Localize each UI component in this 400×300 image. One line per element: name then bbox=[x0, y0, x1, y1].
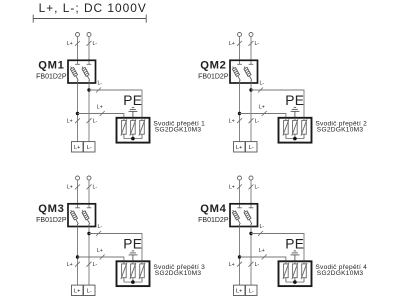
wire L- from QM4 down to terminal block bbox=[250, 227, 252, 285]
svg-text:L+: L+ bbox=[67, 262, 73, 268]
svg-text:L+: L+ bbox=[229, 262, 235, 268]
terminal block L+ output of QM3 bbox=[72, 285, 84, 295]
varistor L+ of unit 1 (surge arrester element) bbox=[121, 118, 127, 139]
wire marker slash on L+ input of QM3 bbox=[75, 184, 80, 189]
wire marker slash on L+ output of QM3 bbox=[75, 262, 80, 267]
junction node on common bus of surge arrester 1 bbox=[131, 137, 135, 141]
svg-text:L+: L+ bbox=[74, 289, 80, 295]
svg-text:L+: L+ bbox=[229, 41, 235, 47]
varistor L- of unit 1 (surge arrester element) bbox=[139, 118, 145, 139]
fuse-switch QM2 pole L-: blade with fuse body bbox=[244, 67, 252, 84]
junction node on L+ wire (branch to surge arrester 4) bbox=[238, 255, 241, 258]
earth (PE) symbol of block QM1 bbox=[129, 107, 138, 117]
fuse-switch QM4 pole L+: blade with fuse body bbox=[232, 210, 240, 227]
junction node on L+ wire (branch to surge arrester 3) bbox=[76, 255, 79, 258]
wire marker slash on L+ input of QM2 bbox=[237, 41, 242, 46]
svg-text:SG2DGK10M3: SG2DGK10M3 bbox=[317, 270, 364, 277]
svg-text:L-: L- bbox=[93, 185, 98, 191]
wire L+ from QM3 down to terminal block bbox=[77, 227, 79, 285]
svg-text:SG2DGK10M3: SG2DGK10M3 bbox=[155, 270, 202, 277]
terminal block L+ output of QM2 bbox=[234, 142, 246, 152]
fuse-switch QM4 pole L-: blade with fuse body bbox=[244, 210, 252, 227]
surge arrester unit 2 outline box bbox=[279, 118, 312, 143]
wire L- branch to surge arrester 3 bbox=[89, 234, 142, 262]
svg-text:L+: L+ bbox=[67, 185, 73, 191]
wire marker slash on L- branch of QM4 bbox=[258, 231, 263, 236]
fuse-switch QM3 pole L+: blade with fuse body bbox=[70, 210, 78, 227]
varistor PE of unit 2 (surge arrester element) bbox=[292, 118, 298, 139]
svg-text:L+: L+ bbox=[259, 248, 265, 254]
svg-text:QM4: QM4 bbox=[200, 203, 226, 215]
svg-text:L-: L- bbox=[93, 262, 98, 268]
surge arrester unit 4 outline box bbox=[279, 261, 312, 286]
wire marker slash on L- branch of QM2 bbox=[258, 88, 263, 93]
terminal block L- output of QM4 bbox=[246, 285, 258, 295]
svg-text:L+: L+ bbox=[229, 119, 235, 125]
svg-text:L-: L- bbox=[260, 224, 265, 230]
svg-text:L-: L- bbox=[255, 119, 260, 125]
common bus inside surge arrester 4 bbox=[286, 281, 304, 283]
svg-text:L+: L+ bbox=[97, 104, 103, 110]
svg-text:L+: L+ bbox=[74, 145, 80, 151]
surge arrester unit 1 outline box bbox=[117, 118, 150, 143]
earth (PE) symbol of block QM4 bbox=[291, 251, 300, 261]
wire L+ from QM4 down to terminal block bbox=[239, 227, 241, 285]
varistor PE of unit 3 (surge arrester element) bbox=[130, 261, 136, 282]
svg-text:L+: L+ bbox=[67, 119, 73, 125]
fuse-switch QM3 pole L-: fixed contact tick bbox=[87, 207, 92, 209]
svg-text:L-: L- bbox=[249, 145, 254, 151]
junction node on common bus of surge arrester 3 bbox=[131, 280, 135, 284]
terminal block L+ output of QM1 bbox=[72, 142, 84, 152]
wire marker slash on L+ branch of QM4 bbox=[262, 255, 267, 260]
junction node on common bus of surge arrester 2 bbox=[293, 137, 297, 141]
surge arrester unit 3 outline box bbox=[117, 261, 150, 286]
svg-text:L+: L+ bbox=[236, 289, 242, 295]
junction node on L- wire (branch to surge arrester 4) bbox=[249, 232, 252, 235]
junction node on common bus of surge arrester 4 bbox=[293, 280, 297, 284]
varistor L- of unit 4 (surge arrester element) bbox=[301, 261, 307, 282]
wire marker slash on L- output of QM1 bbox=[87, 118, 92, 123]
common bus inside surge arrester 2 bbox=[286, 138, 304, 140]
wire marker slash on L+ branch of QM1 bbox=[100, 111, 105, 116]
fuse-switch QM3 pole L-: blade with fuse body bbox=[82, 210, 90, 227]
terminal block L+ output of QM4 bbox=[234, 285, 246, 295]
wire marker slash on L- output of QM2 bbox=[249, 118, 254, 123]
wire marker slash on L- input of QM1 bbox=[87, 41, 92, 46]
svg-text:L+: L+ bbox=[97, 248, 103, 254]
svg-text:FB01D2P: FB01D2P bbox=[198, 73, 229, 80]
terminal L- input (circle) of QM2 bbox=[249, 33, 253, 37]
wire L- branch to surge arrester 4 bbox=[251, 234, 304, 262]
varistor L- of unit 3 (surge arrester element) bbox=[139, 261, 145, 282]
terminal L+ input (circle) of QM1 bbox=[76, 33, 80, 37]
wire L- from input terminal into QM1 bbox=[88, 37, 90, 65]
fuse disconnector QM2 outline box bbox=[230, 60, 258, 83]
wire L+ from input terminal into QM2 bbox=[239, 37, 241, 65]
wire L+ from input terminal into QM3 bbox=[77, 180, 79, 208]
fuse-switch QM2 pole L+: fixed contact tick bbox=[237, 63, 242, 65]
fuse disconnector QM1 outline box bbox=[68, 60, 96, 83]
fuse-switch QM4 pole L+: fixed contact tick bbox=[237, 207, 242, 209]
svg-text:L+: L+ bbox=[229, 185, 235, 191]
varistor L+ of unit 2 (surge arrester element) bbox=[283, 118, 289, 139]
wire L+ branch to surge arrester 4 bbox=[240, 257, 286, 261]
svg-text:QM3: QM3 bbox=[38, 203, 64, 215]
fuse-switch QM1 pole L+: fixed contact tick bbox=[75, 63, 80, 65]
fuse disconnector QM3 outline box bbox=[68, 204, 96, 227]
wire L+ from QM1 down to terminal block bbox=[77, 84, 79, 142]
svg-text:L+, L-; DC 1000V: L+, L-; DC 1000V bbox=[39, 1, 147, 15]
varistor L+ of unit 3 (surge arrester element) bbox=[121, 261, 127, 282]
wire marker slash on L+ output of QM2 bbox=[237, 118, 242, 123]
fuse-switch QM3 pole L+: fixed contact tick bbox=[75, 207, 80, 209]
junction node on L- wire (branch to surge arrester 3) bbox=[87, 232, 90, 235]
bus bracket line under title bbox=[33, 15, 146, 23]
junction node on L+ wire (branch to surge arrester 1) bbox=[76, 112, 79, 115]
svg-text:L-: L- bbox=[249, 289, 254, 295]
svg-text:L-: L- bbox=[255, 185, 260, 191]
svg-text:L+: L+ bbox=[236, 145, 242, 151]
svg-text:L-: L- bbox=[87, 145, 92, 151]
svg-text:L-: L- bbox=[93, 119, 98, 125]
svg-text:FB01D2P: FB01D2P bbox=[198, 217, 229, 224]
varistor L+ of unit 4 (surge arrester element) bbox=[283, 261, 289, 282]
svg-text:PE: PE bbox=[123, 237, 142, 252]
common bus inside surge arrester 1 bbox=[124, 138, 142, 140]
varistor PE of unit 4 (surge arrester element) bbox=[292, 261, 298, 282]
terminal L- input (circle) of QM3 bbox=[87, 176, 91, 180]
svg-text:PE: PE bbox=[123, 93, 142, 108]
svg-text:L-: L- bbox=[98, 81, 103, 87]
wire marker slash on L+ branch of QM2 bbox=[262, 111, 267, 116]
wire marker slash on L- branch of QM1 bbox=[96, 88, 101, 93]
common bus inside surge arrester 3 bbox=[124, 281, 142, 283]
wire marker slash on L+ output of QM4 bbox=[237, 262, 242, 267]
wire L+ from input terminal into QM1 bbox=[77, 37, 79, 65]
svg-text:PE: PE bbox=[285, 93, 304, 108]
svg-text:L-: L- bbox=[87, 289, 92, 295]
wire L+ branch to surge arrester 2 bbox=[240, 114, 286, 118]
wire L- from QM3 down to terminal block bbox=[88, 227, 90, 285]
fuse-switch QM1 pole L+: blade with fuse body bbox=[70, 67, 78, 84]
terminal L+ input (circle) of QM2 bbox=[238, 33, 242, 37]
fuse-switch QM1 pole L-: blade with fuse body bbox=[82, 67, 90, 84]
wire marker slash on L+ input of QM4 bbox=[237, 184, 242, 189]
wire L+ from input terminal into QM4 bbox=[239, 180, 241, 208]
wire L+ from QM2 down to terminal block bbox=[239, 84, 241, 142]
wire L- branch to surge arrester 1 bbox=[89, 90, 142, 118]
wire L- from QM2 down to terminal block bbox=[250, 84, 252, 142]
fuse-switch QM2 pole L-: fixed contact tick bbox=[249, 63, 254, 65]
fuse-switch QM4 pole L-: fixed contact tick bbox=[249, 207, 254, 209]
wire marker slash on L- output of QM4 bbox=[249, 262, 254, 267]
svg-text:SG2DGK10M3: SG2DGK10M3 bbox=[155, 127, 202, 134]
svg-text:FB01D2P: FB01D2P bbox=[36, 73, 67, 80]
terminal L- input (circle) of QM1 bbox=[87, 33, 91, 37]
svg-text:QM1: QM1 bbox=[38, 59, 64, 71]
fuse-switch QM1 pole L-: fixed contact tick bbox=[87, 63, 92, 65]
wire marker slash on L+ input of QM1 bbox=[75, 41, 80, 46]
wire marker slash on L+ branch of QM3 bbox=[100, 255, 105, 260]
junction node on L+ wire (branch to surge arrester 2) bbox=[238, 112, 241, 115]
wire L+ branch to surge arrester 1 bbox=[78, 114, 124, 118]
earth (PE) symbol of block QM2 bbox=[291, 107, 300, 117]
svg-text:L-: L- bbox=[93, 41, 98, 47]
fuse disconnector QM4 outline box bbox=[230, 204, 258, 227]
earth (PE) symbol of block QM3 bbox=[129, 251, 138, 261]
varistor L- of unit 2 (surge arrester element) bbox=[301, 118, 307, 139]
svg-text:FB01D2P: FB01D2P bbox=[36, 217, 67, 224]
svg-text:L-: L- bbox=[255, 41, 260, 47]
wire marker slash on L- input of QM2 bbox=[249, 41, 254, 46]
svg-text:L-: L- bbox=[260, 81, 265, 87]
wire L- from input terminal into QM4 bbox=[250, 180, 252, 208]
wire marker slash on L- input of QM3 bbox=[87, 184, 92, 189]
junction node on L- wire (branch to surge arrester 2) bbox=[249, 88, 252, 91]
wire L- from input terminal into QM3 bbox=[88, 180, 90, 208]
wire L- branch to surge arrester 2 bbox=[251, 90, 304, 118]
fuse-switch QM2 pole L+: blade with fuse body bbox=[232, 67, 240, 84]
wire L- from input terminal into QM2 bbox=[250, 37, 252, 65]
terminal block L- output of QM1 bbox=[84, 142, 96, 152]
svg-text:PE: PE bbox=[285, 237, 304, 252]
svg-text:L-: L- bbox=[98, 224, 103, 230]
wire L- from QM1 down to terminal block bbox=[88, 84, 90, 142]
junction node on L- wire (branch to surge arrester 1) bbox=[87, 88, 90, 91]
svg-text:L+: L+ bbox=[67, 41, 73, 47]
wire marker slash on L+ output of QM1 bbox=[75, 118, 80, 123]
varistor PE of unit 1 (surge arrester element) bbox=[130, 118, 136, 139]
terminal L+ input (circle) of QM4 bbox=[238, 176, 242, 180]
wire marker slash on L- input of QM4 bbox=[249, 184, 254, 189]
terminal L+ input (circle) of QM3 bbox=[76, 176, 80, 180]
wire marker slash on L- branch of QM3 bbox=[96, 231, 101, 236]
terminal L- input (circle) of QM4 bbox=[249, 176, 253, 180]
svg-text:QM2: QM2 bbox=[200, 59, 226, 71]
svg-text:L-: L- bbox=[255, 262, 260, 268]
wire marker slash on L- output of QM3 bbox=[87, 262, 92, 267]
terminal block L- output of QM2 bbox=[246, 142, 258, 152]
wire L+ branch to surge arrester 3 bbox=[78, 257, 124, 261]
svg-text:L+: L+ bbox=[259, 104, 265, 110]
terminal block L- output of QM3 bbox=[84, 285, 96, 295]
svg-text:SG2DGK10M3: SG2DGK10M3 bbox=[317, 127, 364, 134]
